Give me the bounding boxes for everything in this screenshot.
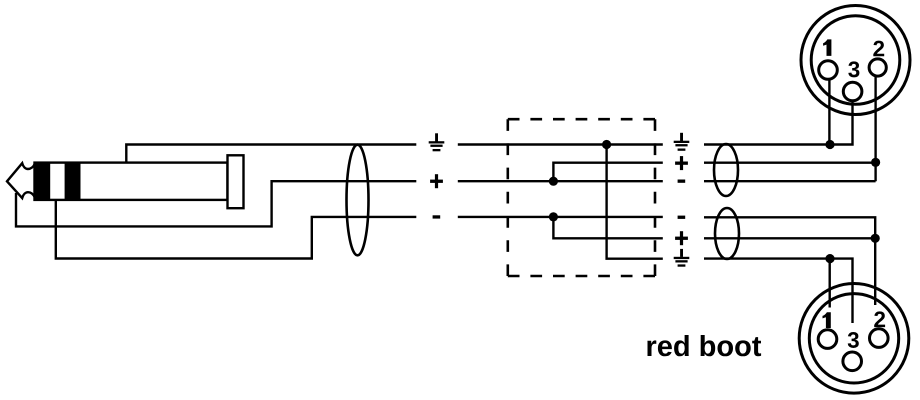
xlr1 inner shell [811, 16, 900, 105]
wire xlr1 pin2 drop [874, 75, 876, 181]
junction dot xlr2 pin2 [871, 234, 880, 243]
ground symbol left [429, 133, 445, 151]
wire upper minus joins pin2 [704, 180, 876, 182]
cable shield ellipse upper right [714, 144, 738, 196]
junction dot minus [549, 212, 558, 221]
junction dot xlr2 ground [825, 254, 834, 263]
ground symbol upper right [674, 133, 690, 151]
xlr2 pin 3 [843, 352, 862, 371]
xlr1 label 2 [873, 41, 884, 57]
jack rear cap [228, 155, 244, 208]
label red boot [647, 335, 761, 356]
wire upper ground to xlr1 pin3 [704, 100, 853, 145]
xlr1 outer shell [801, 6, 910, 115]
wire ground through junction box [458, 143, 663, 145]
xlr1 label 1 [823, 39, 831, 56]
xlr2 label 2 [874, 311, 885, 327]
junction dot xlr1 ground [825, 140, 834, 149]
junction dot xlr1 pin2 [871, 158, 880, 167]
jack ring insulator band [65, 162, 81, 202]
minus symbol upper right [678, 180, 686, 183]
plus symbol upper right [675, 156, 688, 170]
wire sleeve-to-ground (jack sleeve lead) [126, 145, 416, 164]
xlr2 label 3 [848, 332, 859, 348]
jack plug tip [7, 163, 35, 198]
xlr2 label 1 [823, 312, 831, 328]
xlr2 inner shell [809, 294, 898, 383]
xlr1 label 3 [848, 61, 859, 77]
minus symbol left [433, 215, 441, 218]
ground symbol lower right [674, 249, 690, 267]
wire plus branch upper xlr [553, 163, 662, 182]
minus symbol lower right [678, 216, 686, 219]
xlr2 outer shell [799, 284, 909, 394]
junction dot plus [549, 177, 558, 186]
wire plus through junction box [458, 180, 663, 182]
wire ring-to-minus (jack ring lead) [56, 198, 417, 259]
wire minus through junction box [458, 216, 663, 218]
xlr2 pin 2 [870, 329, 889, 348]
wire upper plus to xlr1 pin2 [704, 161, 876, 163]
wire ground branch to lower xlr [607, 145, 663, 259]
wire tip-to-plus (jack tip lead) [16, 181, 416, 226]
xlr2 pin 1 [818, 330, 837, 349]
wire lower minus to xlr2 pin2 [704, 217, 875, 238]
xlr1 pin 2 [869, 59, 886, 76]
jack tip insulator band [35, 162, 50, 202]
cable shield ellipse left [347, 145, 369, 256]
cable shield ellipse lower right [715, 208, 739, 259]
wire lower ground to xlr2 pin3 [704, 259, 853, 323]
wire lower plus row [704, 237, 875, 239]
wire minus branch lower xlr [553, 217, 662, 238]
wire xlr1 pin1 drop [828, 78, 830, 145]
plus symbol left [430, 174, 443, 188]
dashed junction box [508, 119, 655, 276]
xlr1 pin 3 [843, 82, 862, 101]
wire xlr2 pin1 drop [829, 259, 831, 308]
jack plug body [35, 163, 228, 200]
xlr1 pin 1 [819, 61, 838, 80]
junction dot ground [602, 140, 611, 149]
plus symbol lower right [675, 231, 688, 245]
wire xlr2 pin2 drop [874, 238, 876, 305]
